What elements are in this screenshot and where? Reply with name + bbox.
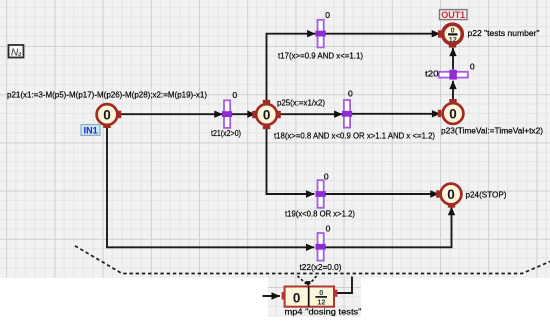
- svg-text:t19(x<0.8 OR x>1.2): t19(x<0.8 OR x>1.2): [285, 208, 355, 218]
- svg-text:t22(x2=0.0): t22(x2=0.0): [300, 262, 342, 272]
- wire t17 to p22: [324, 33, 440, 35]
- svg-text:t17(x>=0.9 AND x<=1.1): t17(x>=0.9 AND x<=1.1): [278, 50, 363, 60]
- wire p25 up to t17: [267, 34, 316, 103]
- dashed arc arrowhead into mp4: [305, 281, 311, 287]
- wire mp4 right side up to boundary: [337, 277, 353, 294]
- transition t20 (horizontal): [439, 70, 468, 80]
- svg-text:0: 0: [348, 89, 353, 99]
- wire t20 up to p22: [452, 48, 454, 70]
- svg-text:0: 0: [103, 107, 111, 122]
- svg-text:mp4 "dosing tests": mp4 "dosing tests": [285, 307, 362, 317]
- macro place mp4: [282, 287, 338, 307]
- svg-text:OUT1: OUT1: [441, 10, 465, 20]
- svg-text:t21(x2>0): t21(x2>0): [211, 128, 241, 138]
- svg-text:12: 12: [449, 35, 457, 44]
- svg-text:0: 0: [326, 224, 331, 234]
- wire t21 to p25: [232, 113, 256, 115]
- wire p21 down to t22: [107, 127, 314, 247]
- transition t21: [222, 100, 232, 128]
- svg-text:0: 0: [325, 10, 330, 20]
- svg-text:0: 0: [470, 61, 475, 71]
- dashed arc t22 to mp4 (right): [310, 276, 317, 284]
- svg-text:0: 0: [263, 107, 271, 122]
- svg-text:p24(STOP): p24(STOP): [466, 190, 507, 200]
- wire t19 to p24: [324, 193, 439, 195]
- svg-text:IN1: IN1: [84, 126, 98, 136]
- wire t22 up to p24: [324, 207, 452, 247]
- IN1 port label: [81, 125, 100, 136]
- svg-text:p22 "tests number": p22 "tests number": [468, 28, 540, 38]
- svg-text:p25(x:=x1/x2): p25(x:=x1/x2): [277, 98, 325, 108]
- net name box N4: [9, 45, 24, 59]
- place p23: [438, 99, 464, 124]
- wire p23 up to t20: [452, 81, 454, 101]
- place p25: [252, 100, 281, 129]
- place p22 (bounded, 0/12): [438, 24, 462, 47]
- wire p21 to t21: [121, 113, 223, 115]
- wire t18 to p23: [350, 113, 440, 115]
- svg-text:p21(x1:=3-M(p5)-M(p17)-M(p26)-: p21(x1:=3-M(p5)-M(p17)-M(p26)-M(p28);x2:…: [7, 90, 207, 100]
- svg-text:0: 0: [451, 26, 455, 35]
- wire p25 down to t19: [267, 127, 315, 195]
- svg-text:12: 12: [317, 298, 325, 307]
- transition t18: [342, 100, 352, 128]
- svg-text:t20: t20: [425, 69, 439, 79]
- svg-text:0: 0: [232, 90, 237, 100]
- svg-text:t18(x>=0.8 AND x<0.9 OR x>1.1: t18(x>=0.8 AND x<0.9 OR x>1.1 AND x <=1.…: [274, 130, 435, 140]
- svg-text:0: 0: [449, 106, 457, 121]
- transition t17: [316, 20, 326, 48]
- net boundary dashed line: [75, 246, 550, 274]
- dashed arc t22 to mp4 (left): [298, 276, 307, 284]
- svg-text:4: 4: [18, 52, 22, 59]
- transition t22: [316, 233, 326, 261]
- svg-text:p23(TimeVal:=TimeVal+tx2): p23(TimeVal:=TimeVal+tx2): [441, 125, 543, 135]
- svg-text:0: 0: [293, 291, 301, 306]
- place p21: [97, 104, 122, 128]
- canvas grid patch around macro place mp4: [268, 278, 361, 317]
- transition t19: [316, 180, 326, 208]
- svg-text:0: 0: [447, 187, 455, 202]
- OUT1 port label: [440, 10, 468, 20]
- wire into macro place mp4: [263, 295, 280, 297]
- svg-text:0: 0: [324, 171, 329, 181]
- wire p25 to t18: [279, 113, 343, 115]
- place p24: [436, 184, 461, 208]
- svg-text:0: 0: [319, 288, 323, 297]
